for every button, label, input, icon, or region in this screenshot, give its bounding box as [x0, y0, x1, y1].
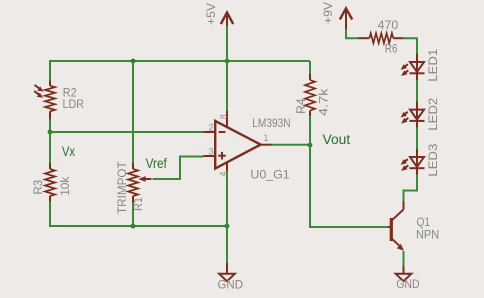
svg-text:1: 1: [264, 133, 269, 143]
wire LED2-LED3: [416, 128, 418, 150]
supply +5V: [221, 13, 233, 28]
svg-text:+5V: +5V: [204, 2, 218, 25]
svg-text:LED3: LED3: [426, 143, 440, 176]
wire emitter to GND: [403, 251, 405, 266]
svg-text:8: 8: [218, 114, 228, 119]
svg-text:R6: R6: [385, 42, 398, 56]
resistor R4: [305, 74, 315, 116]
wire left column upper: [49, 60, 51, 81]
svg-text:GND: GND: [396, 277, 420, 291]
wire left column mid: [49, 132, 51, 163]
junction Vout: [308, 143, 313, 148]
junction bottom gnd: [225, 224, 230, 229]
wire bottom rail: [49, 225, 227, 227]
wire trimpot bottom: [132, 203, 134, 227]
LED LED2: [403, 102, 424, 128]
wire R4 top: [309, 61, 311, 74]
wire +5V to pin 8: [226, 61, 228, 111]
resistor R3: [45, 163, 55, 202]
wire pin 4 to bottom rail: [226, 171, 228, 226]
svg-text:GND: GND: [218, 278, 244, 292]
wire left column to Vx row: [49, 120, 51, 134]
LED LED3: [403, 149, 424, 175]
wire LED1-LED2: [416, 80, 418, 102]
potentiometer R1 TRIMPOT: [128, 163, 152, 203]
svg-text:LDR: LDR: [63, 97, 85, 111]
junction bottom trimpot: [131, 224, 136, 229]
wire Vref: [153, 157, 204, 180]
resistor R2 LDR: [34, 81, 55, 120]
svg-text:10k: 10k: [58, 176, 72, 196]
svg-text:3: 3: [208, 146, 213, 156]
ground GND right: [396, 266, 412, 281]
resistor R6: [358, 33, 403, 43]
LED2 emission arrowheads: [401, 112, 408, 124]
svg-text:+9V: +9V: [321, 1, 335, 24]
LED1 emission arrowheads: [401, 64, 408, 76]
svg-text:U0_G1: U0_G1: [250, 168, 290, 182]
wire +9V to R6: [346, 29, 358, 38]
junction top +5V: [225, 59, 230, 64]
trimpot wiper arrowhead: [138, 176, 145, 182]
emitter arrowhead: [397, 244, 404, 251]
svg-text:R4: R4: [294, 98, 308, 114]
wire R6 to LED1: [403, 38, 417, 54]
ground GND center: [219, 263, 235, 281]
wire LED3 to collector: [404, 175, 418, 202]
wire Vx row: [50, 131, 204, 133]
svg-text:LED1: LED1: [426, 49, 440, 82]
svg-text:Vx: Vx: [62, 144, 75, 159]
svg-text:LED2: LED2: [426, 98, 440, 131]
wire Vout to base: [310, 145, 389, 227]
svg-text:R3: R3: [31, 180, 45, 195]
wire op-amp output: [272, 144, 311, 146]
LED LED1: [403, 54, 424, 80]
wire R4 bottom: [309, 116, 311, 146]
svg-text:LM393N: LM393N: [252, 116, 290, 130]
wire +5V stem: [226, 26, 228, 61]
svg-text:Vout: Vout: [323, 132, 351, 147]
svg-text:TRIMPOT: TRIMPOT: [115, 161, 129, 214]
svg-text:470: 470: [378, 18, 399, 32]
LED3 emission arrowheads: [401, 159, 408, 171]
svg-text:NPN: NPN: [416, 228, 439, 242]
LDR light arrowheads: [37, 87, 44, 98]
svg-text:Vref: Vref: [146, 156, 167, 171]
junction top middle: [131, 59, 136, 64]
wire middle column: [132, 61, 134, 163]
wire bottom to GND: [226, 226, 228, 263]
supply +9V: [340, 8, 352, 30]
junction Vx left: [48, 130, 53, 135]
op-amp U0_G1 LM393N: [204, 111, 272, 171]
svg-text:4.7k: 4.7k: [317, 88, 331, 116]
wire left column lower: [49, 202, 51, 228]
wire top +5V bus: [50, 60, 310, 62]
transistor Q1 NPN: [388, 202, 404, 247]
svg-text:2: 2: [208, 123, 213, 133]
